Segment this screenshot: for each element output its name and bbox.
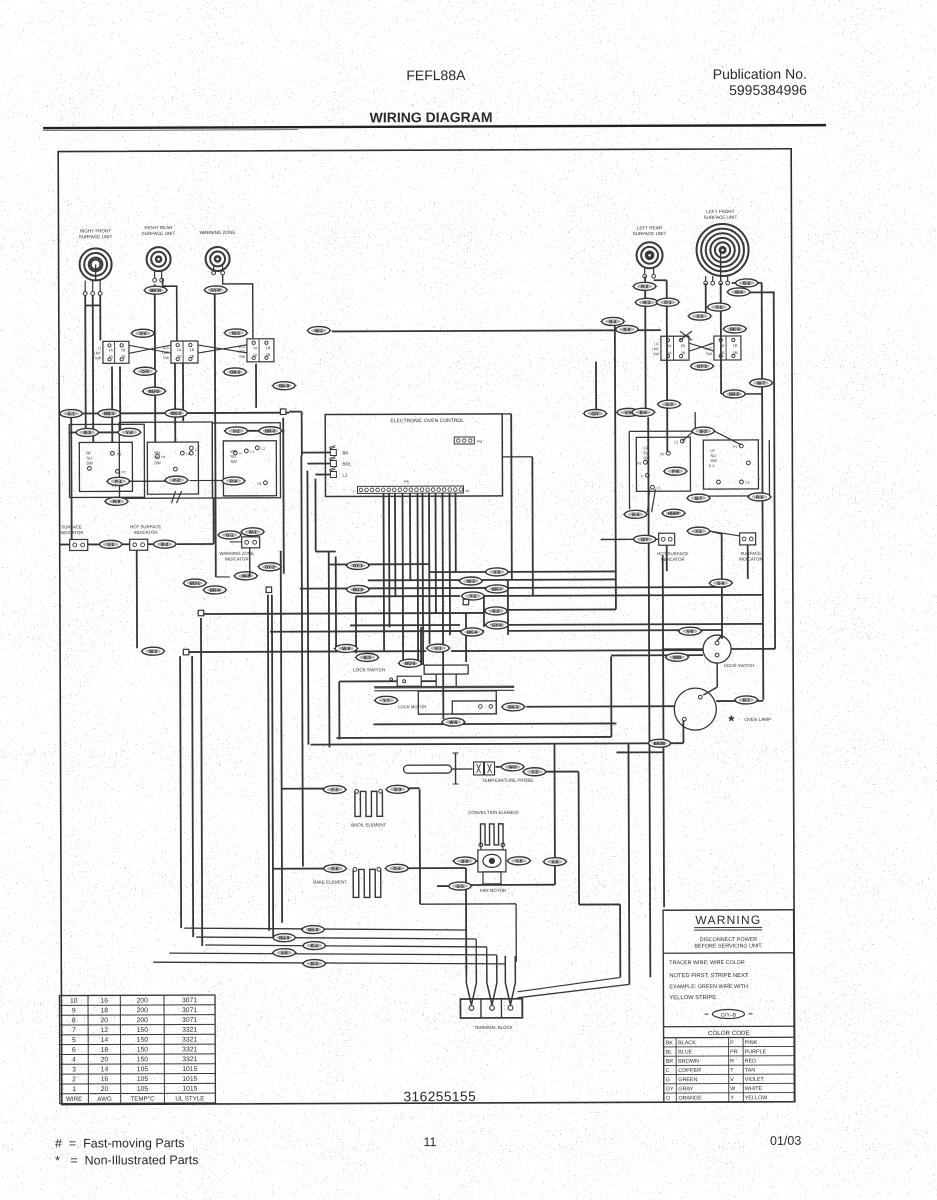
svg-text:BROIL ELEMENT: BROIL ELEMENT — [351, 822, 386, 827]
svg-text:WIRING DIAGRAM: WIRING DIAGRAM — [370, 109, 493, 125]
svg-text:2A: 2A — [253, 353, 258, 357]
svg-text:316255155: 316255155 — [403, 1089, 476, 1104]
svg-text:SW: SW — [230, 459, 237, 464]
svg-text:BU-D: BU-D — [149, 389, 160, 394]
svg-text:Y-3: Y-3 — [531, 769, 538, 774]
svg-text:16: 16 — [101, 1076, 109, 1083]
svg-text:P5: P5 — [404, 479, 410, 484]
svg-text:RED: RED — [745, 1058, 757, 1064]
svg-text:2B: 2B — [681, 351, 686, 355]
svg-text:PURPLE: PURPLE — [745, 1049, 767, 1055]
svg-text:W-5: W-5 — [232, 331, 241, 336]
svg-text:G/Y: G/Y — [641, 537, 649, 542]
svg-text:2B: 2B — [190, 355, 195, 359]
svg-text:6: 6 — [72, 1047, 76, 1054]
svg-text:BU-2: BU-2 — [353, 587, 364, 592]
svg-text:R-3: R-3 — [364, 655, 372, 660]
svg-text:P: P — [730, 1040, 734, 1046]
svg-text:HOT SURFACE: HOT SURFACE — [657, 551, 688, 556]
svg-text:DOOR SWITCH: DOOR SWITCH — [724, 663, 754, 668]
svg-text:P4: P4 — [477, 439, 483, 444]
svg-text:SW: SW — [710, 458, 717, 463]
svg-text:SURFACE UNIT: SURFACE UNIT — [142, 231, 176, 236]
svg-text:BK-4: BK-4 — [467, 630, 478, 635]
svg-text:O-1: O-1 — [664, 300, 672, 305]
svg-text:SURFACE: SURFACE — [740, 551, 761, 556]
svg-text:V-6: V-6 — [552, 859, 559, 864]
svg-text:V: V — [730, 1077, 734, 1083]
svg-text:1015: 1015 — [182, 1086, 197, 1093]
svg-text:INDICATOR: INDICATOR — [661, 557, 685, 562]
svg-text:B-2: B-2 — [700, 429, 708, 434]
svg-text:WARNING ZONE: WARNING ZONE — [219, 551, 254, 556]
svg-text:L2: L2 — [675, 440, 679, 444]
svg-text:P-1: P-1 — [115, 479, 122, 484]
svg-text:CONVECTION ELEMENT: CONVECTION ELEMENT — [468, 810, 520, 815]
svg-text:3071: 3071 — [182, 1007, 197, 1014]
svg-text:PR: PR — [730, 1049, 738, 1055]
svg-text:BK: BK — [666, 1040, 674, 1046]
svg-text:BROWN: BROWN — [678, 1059, 699, 1065]
svg-text:G-1: G-1 — [226, 533, 234, 538]
svg-text:2B: 2B — [266, 353, 271, 357]
svg-text:BR-4: BR-4 — [210, 588, 221, 593]
svg-text:B-8: B-8 — [461, 859, 469, 864]
svg-text:BK-8: BK-8 — [279, 383, 290, 388]
svg-text:BAKE ELEMENT: BAKE ELEMENT — [313, 879, 347, 884]
svg-text:P-5: P-5 — [331, 787, 338, 792]
svg-text:Y: Y — [730, 1095, 734, 1101]
svg-text:105: 105 — [137, 1066, 149, 1073]
svg-text:105: 105 — [137, 1086, 149, 1093]
svg-text:C: C — [666, 1068, 670, 1074]
svg-text:3321: 3321 — [182, 1027, 197, 1034]
svg-text:RIGHT REAR: RIGHT REAR — [144, 225, 173, 230]
svg-text:V-0: V-0 — [687, 629, 694, 634]
svg-text:P3: P3 — [745, 481, 749, 485]
svg-text:20: 20 — [101, 1086, 109, 1093]
svg-text:TEMPERATURE PROBE: TEMPERATURE PROBE — [482, 778, 534, 783]
svg-text:Y-7: Y-7 — [383, 698, 390, 703]
svg-text:W-7: W-7 — [757, 381, 766, 386]
svg-text:10: 10 — [70, 998, 78, 1005]
svg-text:SW: SW — [706, 352, 712, 356]
svg-text:20: 20 — [100, 1017, 108, 1024]
svg-text:W-8: W-8 — [242, 574, 251, 579]
svg-text:WHITE: WHITE — [745, 1086, 763, 1092]
svg-text:5: 5 — [72, 1037, 76, 1044]
svg-text:LR: LR — [654, 342, 659, 346]
svg-text:G-6: G-6 — [717, 581, 725, 586]
svg-text:3071: 3071 — [182, 997, 197, 1004]
svg-text:INDICATOR: INDICATOR — [134, 530, 158, 535]
svg-text:O: O — [666, 1096, 670, 1102]
svg-text:G/Y–B: G/Y–B — [721, 1012, 737, 1018]
svg-text:R: R — [730, 1059, 734, 1065]
svg-text:G/Y: G/Y — [591, 411, 599, 416]
svg-text:LOCK SWITCH: LOCK SWITCH — [353, 667, 385, 672]
svg-text:INDICATOR: INDICATOR — [739, 556, 763, 561]
svg-text:LMT: LMT — [94, 351, 102, 355]
svg-text:SW: SW — [154, 460, 161, 465]
svg-text:GY-3: GY-3 — [697, 364, 708, 369]
svg-text:200: 200 — [137, 997, 149, 1004]
svg-text:P-6: P-6 — [331, 866, 338, 871]
svg-text:RIGHT FRONT: RIGHT FRONT — [80, 228, 112, 233]
svg-text:G-3: G-3 — [665, 402, 673, 407]
svg-text:3321: 3321 — [182, 1056, 197, 1063]
svg-text:B-2: B-2 — [161, 542, 169, 547]
svg-text:SURFACE UNIT: SURFACE UNIT — [79, 234, 113, 239]
svg-text:* = Non-Illustrated Parts: * = Non-Illustrated Parts — [55, 1153, 199, 1168]
svg-text:BU-5: BU-5 — [405, 661, 416, 666]
svg-text:1: 1 — [72, 1086, 76, 1093]
svg-text:18: 18 — [100, 1007, 108, 1014]
svg-text:W/B: W/B — [673, 655, 682, 660]
svg-text:GRAY: GRAY — [678, 1086, 693, 1092]
svg-text:5995384996: 5995384996 — [729, 82, 807, 98]
svg-text:R-4: R-4 — [311, 943, 319, 948]
svg-text:W-1: W-1 — [249, 530, 258, 535]
svg-text:B-3: B-3 — [311, 961, 319, 966]
svg-text:2A: 2A — [177, 355, 182, 359]
svg-text:14: 14 — [101, 1037, 109, 1044]
svg-text:COLOR CODE: COLOR CODE — [708, 1030, 750, 1037]
svg-text:SURFACE UNIT: SURFACE UNIT — [704, 215, 738, 220]
svg-text:TERMINAL BLOCK: TERMINAL BLOCK — [474, 1025, 512, 1030]
svg-text:BL: BL — [666, 1050, 673, 1056]
svg-text:P-4: P-4 — [230, 479, 237, 484]
svg-text:1B: 1B — [190, 348, 195, 352]
svg-text:B-6: B-6 — [640, 410, 648, 415]
svg-text:BK-6: BK-6 — [730, 327, 741, 332]
svg-text:V-4: V-4 — [140, 331, 147, 336]
svg-text:1A: 1A — [667, 344, 672, 348]
svg-text:2A: 2A — [667, 351, 672, 355]
svg-text:FEFL88A: FEFL88A — [406, 67, 466, 83]
svg-text:H1: H1 — [637, 461, 641, 465]
svg-text:SW: SW — [95, 356, 101, 360]
svg-text:COPPER: COPPER — [678, 1068, 701, 1074]
svg-text:GY: GY — [666, 1086, 674, 1092]
svg-text:R-2: R-2 — [641, 284, 649, 289]
svg-text:GY-1: GY-1 — [353, 563, 364, 568]
svg-text:W-9: W-9 — [342, 646, 351, 651]
svg-text:BK-9: BK-9 — [308, 927, 319, 932]
svg-text:B-5: B-5 — [743, 281, 751, 286]
svg-text:1B: 1B — [121, 348, 126, 352]
svg-text:1015: 1015 — [182, 1066, 197, 1073]
svg-text:G: G — [666, 1077, 670, 1083]
svg-text:OVEN LAMP: OVEN LAMP — [744, 717, 771, 722]
svg-text:UL STYLE: UL STYLE — [175, 1095, 204, 1102]
svg-text:R-7: R-7 — [743, 698, 751, 703]
svg-text:OR-2: OR-2 — [230, 370, 241, 375]
svg-text:SURFACE UNIT: SURFACE UNIT — [633, 231, 667, 236]
svg-text:WARNING: WARNING — [695, 913, 761, 927]
svg-text:105: 105 — [137, 1076, 149, 1083]
svg-text:BRL: BRL — [342, 461, 351, 466]
svg-text:200: 200 — [137, 1017, 149, 1024]
svg-text:EXAMPLE: GREEN WIRE WITH: EXAMPLE: GREEN WIRE WITH — [669, 984, 748, 990]
svg-text:O-6: O-6 — [141, 369, 149, 374]
svg-text:P-8: P-8 — [672, 469, 679, 474]
svg-text:B-7: B-7 — [695, 496, 703, 501]
svg-text:L2: L2 — [261, 447, 265, 451]
svg-text:R-1: R-1 — [643, 300, 651, 305]
svg-text:WIRE: WIRE — [66, 1096, 82, 1103]
svg-text:G-5: G-5 — [456, 884, 464, 889]
svg-text:W-1: W-1 — [315, 328, 324, 333]
svg-text:O-3: O-3 — [394, 787, 402, 792]
svg-text:SW: SW — [163, 356, 169, 360]
svg-text:BR-1: BR-1 — [104, 411, 115, 416]
svg-text:BU-9: BU-9 — [279, 935, 290, 940]
svg-text:1B: 1B — [681, 344, 686, 348]
svg-text:NOTED FIRST, STRIPE NEXT.: NOTED FIRST, STRIPE NEXT. — [669, 973, 750, 979]
svg-text:YELLOW: YELLOW — [745, 1095, 768, 1101]
svg-text:BR-5: BR-5 — [729, 392, 740, 397]
svg-text:20: 20 — [101, 1057, 109, 1064]
svg-text:WARNING ZONE: WARNING ZONE — [199, 230, 235, 235]
svg-text:1B: 1B — [266, 346, 271, 350]
svg-text:W-0: W-0 — [509, 765, 518, 770]
svg-text:W-3: W-3 — [467, 579, 476, 584]
svg-text:GREEN: GREEN — [678, 1077, 697, 1083]
svg-text:*: * — [728, 713, 734, 730]
svg-text:Y-1: Y-1 — [107, 542, 114, 547]
svg-text:01/03: 01/03 — [770, 1134, 801, 1148]
svg-text:7: 7 — [72, 1027, 76, 1034]
svg-text:GY-2: GY-2 — [265, 564, 276, 569]
svg-text:L2: L2 — [195, 448, 199, 452]
svg-text:W-4: W-4 — [735, 290, 744, 295]
svg-text:LEFT FRONT: LEFT FRONT — [706, 209, 734, 214]
svg-text:BR-7: BR-7 — [492, 587, 503, 592]
svg-text:ELECTRONIC OVEN CONTROL: ELECTRONIC OVEN CONTROL — [390, 418, 464, 424]
svg-text:BLACK: BLACK — [678, 1040, 696, 1046]
svg-text:AWG: AWG — [97, 1096, 112, 1103]
svg-text:BK/W: BK/W — [654, 741, 667, 746]
svg-text:150: 150 — [137, 1047, 149, 1054]
svg-text:SW: SW — [239, 355, 245, 359]
svg-text:BR-2: BR-2 — [265, 428, 276, 433]
svg-text:1: 1 — [353, 489, 355, 493]
svg-text:PINK: PINK — [745, 1040, 758, 1046]
svg-text:LOCK MOTOR: LOCK MOTOR — [398, 704, 426, 709]
svg-text:VIOLET: VIOLET — [745, 1077, 765, 1083]
svg-text:#-1: #-1 — [695, 529, 702, 534]
svg-text:1A: 1A — [177, 348, 182, 352]
svg-text:3321: 3321 — [182, 1046, 197, 1053]
svg-text:BK-R: BK-R — [150, 288, 162, 293]
svg-text:1015: 1015 — [182, 1076, 197, 1083]
svg-text:R-5: R-5 — [492, 609, 500, 614]
svg-text:1A: 1A — [253, 346, 258, 350]
svg-text:150: 150 — [137, 1056, 149, 1063]
svg-text:3071: 3071 — [182, 1017, 197, 1024]
svg-text:H2: H2 — [257, 482, 261, 486]
svg-text:A-1: A-1 — [68, 411, 76, 416]
svg-text:Y-8: Y-8 — [516, 858, 523, 863]
svg-text:O-4: O-4 — [393, 866, 401, 871]
svg-text:H2: H2 — [660, 452, 664, 456]
svg-text:1B: 1B — [733, 344, 738, 348]
svg-text:P1: P1 — [733, 445, 737, 449]
svg-text:4: 4 — [72, 1057, 76, 1064]
svg-text:B-4: B-4 — [609, 319, 617, 324]
svg-text:INDICATOR: INDICATOR — [225, 556, 249, 561]
svg-text:9: 9 — [72, 1008, 76, 1015]
svg-text:BK: BK — [342, 450, 349, 455]
svg-text:LEFT REAR: LEFT REAR — [637, 225, 663, 230]
svg-text:BR: BR — [666, 1059, 674, 1065]
svg-text:V-1: V-1 — [435, 646, 442, 651]
svg-text:R-6: R-6 — [756, 495, 764, 500]
svg-text:TRACER WIRE: WIRE COLOR: TRACER WIRE: WIRE COLOR — [669, 960, 745, 966]
svg-text:Y-6: Y-6 — [715, 305, 722, 310]
svg-text:19: 19 — [465, 489, 469, 493]
svg-text:# = Fast-moving Parts: # = Fast-moving Parts — [55, 1136, 185, 1150]
svg-text:2B: 2B — [121, 355, 126, 359]
svg-text:2A: 2A — [109, 355, 114, 359]
svg-text:FAN MOTOR: FAN MOTOR — [480, 888, 506, 893]
svg-text:150: 150 — [137, 1037, 149, 1044]
svg-text:G-4: G-4 — [632, 512, 640, 517]
svg-text:TEMP°C: TEMP°C — [130, 1096, 155, 1103]
svg-text:1A: 1A — [109, 348, 114, 352]
svg-text:BLUE: BLUE — [678, 1049, 693, 1055]
svg-text:V-2: V-2 — [233, 429, 240, 434]
svg-text:H/A/P: H/A/P — [668, 511, 680, 516]
svg-text:R-9: R-9 — [113, 499, 121, 504]
svg-text:18: 18 — [101, 1047, 109, 1054]
svg-text:TAN: TAN — [745, 1068, 756, 1074]
svg-text:HOT SURFACE: HOT SURFACE — [130, 524, 161, 529]
svg-text:ORANGE: ORANGE — [678, 1096, 702, 1102]
svg-text:3: 3 — [72, 1066, 76, 1073]
svg-text:Y-4: Y-4 — [126, 430, 133, 435]
svg-text:8: 8 — [72, 1017, 76, 1024]
svg-text:11: 11 — [423, 1135, 436, 1149]
svg-text:P-2: P-2 — [173, 478, 180, 483]
svg-text:SW: SW — [86, 460, 93, 465]
svg-text:2: 2 — [72, 1076, 76, 1083]
svg-text:LMT: LMT — [652, 347, 660, 351]
svg-text:H1: H1 — [161, 455, 165, 459]
svg-text:BK-2: BK-2 — [171, 411, 182, 416]
svg-text:BU-1: BU-1 — [190, 581, 201, 586]
svg-text:150: 150 — [137, 1027, 149, 1034]
svg-text:3321: 3321 — [182, 1037, 197, 1044]
svg-text:SW: SW — [653, 352, 659, 356]
svg-text:Y-2: Y-2 — [470, 594, 477, 599]
svg-text:V-3: V-3 — [697, 314, 704, 319]
svg-text:YELLOW STRIPE.: YELLOW STRIPE. — [669, 995, 718, 1001]
svg-text:L1: L1 — [656, 486, 660, 490]
svg-text:L/: L/ — [98, 346, 101, 350]
svg-text:12: 12 — [101, 1027, 109, 1034]
svg-text:V-8: V-8 — [281, 950, 288, 955]
svg-text:R-8: R-8 — [623, 327, 631, 332]
svg-text:BEFORE SERVICING UNIT.: BEFORE SERVICING UNIT. — [694, 943, 762, 949]
svg-text:14: 14 — [101, 1066, 109, 1073]
svg-text:GY-P: GY-P — [210, 288, 221, 293]
svg-text:200: 200 — [137, 1007, 149, 1014]
svg-text:DISCONNECT POWER: DISCONNECT POWER — [700, 937, 758, 943]
svg-text:BK-3: BK-3 — [508, 705, 519, 710]
svg-text:16: 16 — [100, 998, 108, 1005]
svg-text:R-3: R-3 — [84, 430, 92, 435]
svg-text:R 4: R 4 — [709, 464, 715, 468]
svg-text:L1: L1 — [250, 450, 254, 454]
svg-text:V-9: V-9 — [493, 570, 500, 575]
svg-text:P2: P2 — [121, 470, 125, 474]
svg-text:Publication No.: Publication No. — [713, 66, 807, 82]
svg-text:W-6: W-6 — [449, 720, 458, 725]
svg-text:W-2: W-2 — [149, 649, 158, 654]
svg-text:2B: 2B — [733, 351, 738, 355]
svg-text:GY-6: GY-6 — [492, 623, 503, 628]
svg-text:L1: L1 — [342, 472, 348, 477]
